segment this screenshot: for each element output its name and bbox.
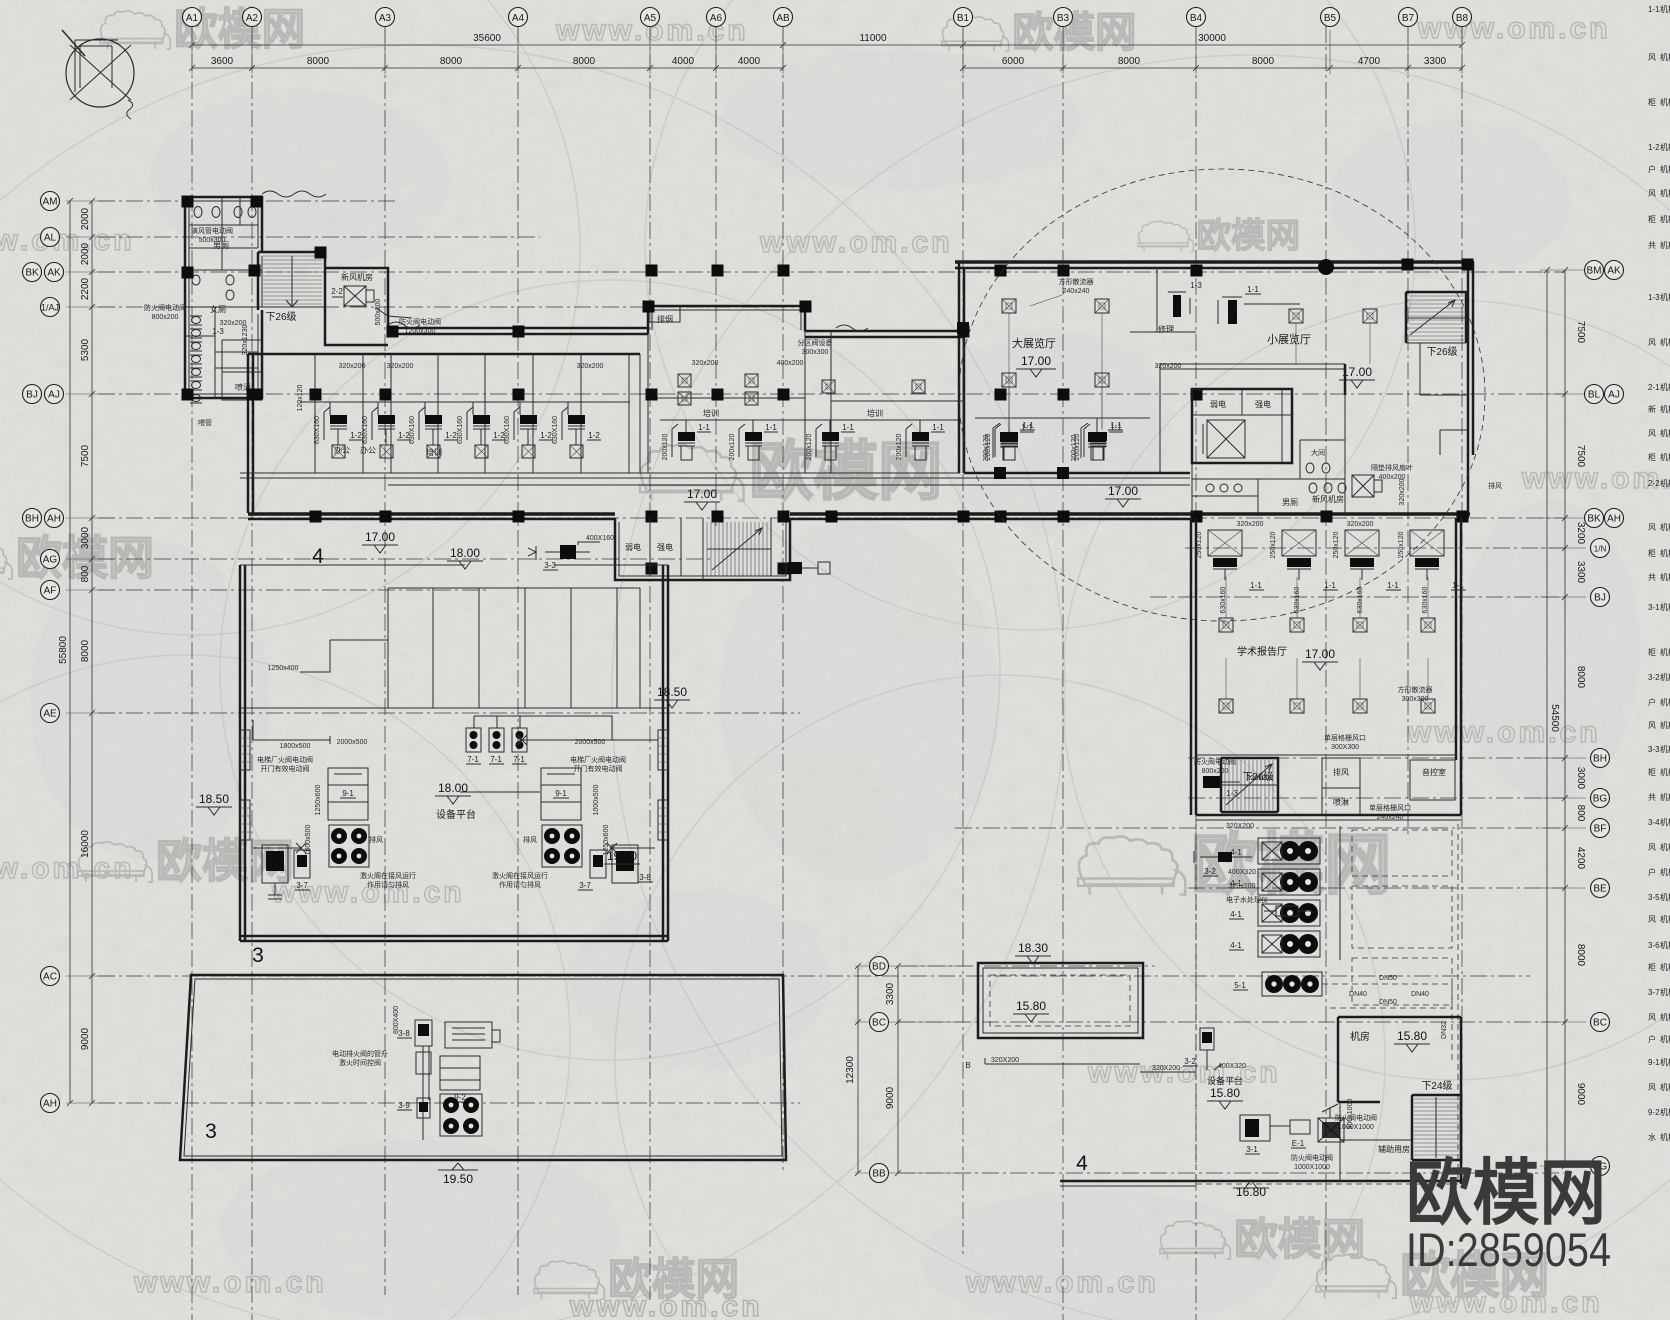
svg-text:柜: 柜: [1648, 647, 1656, 657]
svg-text:隔垫排风扇叶: 隔垫排风扇叶: [1371, 463, 1413, 472]
svg-text:3-2: 3-2: [1204, 867, 1216, 876]
svg-text:机柜: 机柜: [1660, 240, 1670, 250]
svg-text:机柜: 机柜: [1660, 97, 1670, 107]
ceiling diffusers training rooms: [678, 374, 691, 387]
exhibition fan coils 1-1: [1000, 432, 1018, 442]
svg-text:8000: 8000: [1575, 666, 1586, 689]
duct junction X marks: [296, 735, 617, 853]
svg-text:风: 风: [1648, 189, 1656, 198]
svg-text:54500: 54500: [1549, 704, 1560, 732]
svg-text:17.00: 17.00: [1305, 647, 1335, 661]
svg-text:2000x500: 2000x500: [575, 739, 606, 746]
svg-text:1-2: 1-2: [1648, 143, 1660, 152]
svg-text:3300: 3300: [1575, 561, 1586, 584]
stairs down26 south: [1221, 758, 1278, 812]
svg-text:3200: 3200: [1575, 522, 1586, 545]
svg-text:1250x400: 1250x400: [268, 665, 299, 672]
svg-text:300X300: 300X300: [1331, 744, 1359, 751]
svg-text:柜: 柜: [1648, 214, 1656, 224]
east wing inner walls near stair: [1406, 343, 1468, 455]
svg-text:12300: 12300: [845, 1056, 856, 1084]
svg-text:630X160: 630X160: [457, 416, 464, 444]
svg-text:机柜: 机柜: [1660, 940, 1670, 950]
svg-text:1/N: 1/N: [1594, 545, 1607, 554]
svg-text:15.80: 15.80: [1397, 1029, 1427, 1043]
svg-text:柜: 柜: [1648, 452, 1656, 462]
svg-text:630X160: 630X160: [314, 416, 321, 444]
duct run training band: [660, 420, 958, 432]
17.00 level near east stair: [1130, 267, 1196, 332]
svg-text:BD: BD: [872, 962, 886, 973]
extra hall columns: [994, 467, 1006, 479]
svg-text:机柜: 机柜: [1660, 164, 1670, 174]
platform equipment 3-2 southwest: [1200, 1028, 1214, 1050]
svg-text:1-1: 1-1: [765, 423, 777, 432]
svg-text:排风: 排风: [523, 835, 537, 844]
svg-text:3-2: 3-2: [1184, 1057, 1196, 1066]
svg-text:设备平台: 设备平台: [436, 808, 476, 821]
svg-text:320X200: 320X200: [1152, 1065, 1180, 1072]
svg-text:4-1: 4-1: [1230, 910, 1242, 919]
svg-text:激火时间控阀: 激火时间控阀: [339, 1058, 381, 1067]
svg-text:防火阀电动阀: 防火阀电动阀: [1291, 1153, 1333, 1162]
svg-text:机柜: 机柜: [1660, 792, 1670, 802]
svg-text:B5: B5: [1324, 13, 1337, 24]
svg-text:200x120: 200x120: [896, 433, 903, 460]
svg-text:风: 风: [1648, 53, 1656, 62]
svg-text:1-1: 1-1: [1110, 421, 1122, 430]
small rooms south of hall: [1322, 758, 1455, 815]
svg-text:250x120: 250x120: [1270, 531, 1277, 558]
svg-text:9000: 9000: [885, 1086, 896, 1109]
svg-text:下26级: 下26级: [265, 311, 296, 323]
exhibition hall left wall: [959, 261, 964, 473]
svg-text:15.80: 15.80: [1210, 1086, 1240, 1100]
svg-text:1-1: 1-1: [1452, 581, 1464, 590]
svg-text:8000: 8000: [1252, 56, 1275, 67]
svg-text:1250x600: 1250x600: [315, 785, 322, 816]
svg-text:机柜: 机柜: [1660, 1012, 1670, 1022]
equipment platform block outer walls: [240, 565, 245, 941]
svg-text:900x1000: 900x1000: [1347, 1099, 1354, 1130]
svg-text:机柜: 机柜: [1660, 744, 1670, 754]
svg-text:240x240: 240x240: [1063, 288, 1090, 295]
svg-text:AF: AF: [44, 586, 57, 597]
large dashed circle over exhibition halls: [959, 169, 1485, 621]
svg-text:单层格栅风口: 单层格栅风口: [1324, 733, 1366, 742]
svg-text:2000: 2000: [80, 207, 91, 230]
svg-text:3-1: 3-1: [1648, 603, 1660, 612]
fan bank west: [329, 825, 369, 867]
svg-text:下24级: 下24级: [1421, 1080, 1452, 1092]
svg-text:喷淋: 喷淋: [1333, 797, 1349, 807]
wing bottom exterior wall: [248, 512, 615, 516]
svg-text:15.80: 15.80: [1016, 999, 1046, 1013]
svg-text:3-9: 3-9: [398, 1101, 410, 1110]
lecture hall outer walls: [1191, 518, 1196, 815]
svg-text:17.00: 17.00: [365, 530, 395, 544]
svg-text:开门有效电动阀: 开门有效电动阀: [261, 764, 310, 773]
svg-text:机柜: 机柜: [1660, 1107, 1670, 1117]
right axis bubbles: [1585, 261, 1604, 280]
svg-text:作用请匀排风: 作用请匀排风: [499, 880, 541, 889]
svg-text:320x200: 320x200: [1237, 521, 1264, 528]
south yard boundary walls: [1196, 814, 1461, 817]
svg-text:1-2: 1-2: [540, 431, 552, 440]
svg-text:9-1: 9-1: [1648, 1058, 1660, 1067]
svg-text:培训: 培训: [867, 408, 883, 418]
svg-text:户: 户: [1648, 1034, 1656, 1044]
svg-text:E-1: E-1: [1292, 1139, 1305, 1148]
left dimension chain: [70, 201, 92, 1103]
wavy break marks: [262, 191, 326, 197]
svg-text:男厕: 男厕: [1282, 498, 1298, 507]
corridor wall between halls: [1160, 364, 1345, 473]
svg-text:机柜: 机柜: [1660, 1132, 1670, 1142]
svg-text:机柜: 机柜: [1660, 1034, 1670, 1044]
svg-text:8000: 8000: [1118, 56, 1141, 67]
svg-text:培训: 培训: [703, 408, 719, 418]
svg-text:1-1: 1-1: [1022, 421, 1034, 430]
svg-text:防火阀电动阀: 防火阀电动阀: [399, 317, 441, 326]
svg-text:机房: 机房: [1350, 1030, 1370, 1043]
svg-text:办公: 办公: [360, 445, 376, 455]
svg-text:250x120: 250x120: [1333, 531, 1340, 558]
svg-text:机柜: 机柜: [1660, 817, 1670, 827]
svg-text:17.00: 17.00: [687, 487, 717, 501]
svg-text:1-3: 1-3: [212, 327, 224, 336]
svg-text:17.00: 17.00: [1108, 484, 1138, 498]
svg-text:下26级: 下26级: [1242, 771, 1273, 783]
svg-text:3-8: 3-8: [398, 1029, 410, 1038]
svg-text:机柜: 机柜: [1660, 602, 1670, 612]
unit 3-x lecture hall left: [1203, 776, 1221, 788]
svg-text:17.00: 17.00: [1021, 354, 1051, 368]
svg-text:排风: 排风: [1488, 481, 1502, 490]
svg-text:630X160: 630X160: [409, 416, 416, 444]
svg-text:4200: 4200: [1575, 847, 1586, 870]
svg-text:BE: BE: [1593, 884, 1607, 895]
svg-text:BK: BK: [1587, 514, 1601, 525]
svg-text:B1: B1: [957, 13, 970, 24]
fan coil units 1-2 row in offices: [330, 415, 347, 424]
svg-text:机柜: 机柜: [1660, 914, 1670, 924]
svg-text:2-2: 2-2: [1648, 479, 1660, 488]
svg-text:风: 风: [1648, 843, 1656, 852]
svg-text:3-3: 3-3: [544, 561, 556, 570]
svg-text:DN50: DN50: [1379, 975, 1397, 982]
svg-text:机柜: 机柜: [1660, 1082, 1670, 1092]
toilet block partitions and fixtures: [185, 197, 262, 398]
svg-text:辅助用房: 辅助用房: [1378, 1144, 1410, 1154]
north arrow symbol: [62, 30, 134, 119]
svg-text:3-3: 3-3: [1648, 745, 1660, 754]
svg-text:机柜: 机柜: [1660, 987, 1670, 997]
terrace equipment cluster: [415, 1020, 432, 1046]
svg-text:机柜: 机柜: [1660, 962, 1670, 972]
svg-text:630X160: 630X160: [552, 416, 559, 444]
svg-text:17.00: 17.00: [1342, 365, 1372, 379]
svg-text:机柜: 机柜: [1660, 292, 1670, 302]
svg-text:机柜: 机柜: [1660, 672, 1670, 682]
svg-text:200x120: 200x120: [806, 433, 813, 460]
svg-text:8000: 8000: [1575, 944, 1586, 967]
svg-text:7-1: 7-1: [490, 755, 502, 764]
svg-text:强电: 强电: [657, 542, 673, 552]
mid columns wing grid: [646, 265, 658, 277]
svg-text:单层格栅风口: 单层格栅风口: [1369, 803, 1411, 812]
svg-text:3300: 3300: [885, 982, 896, 1005]
svg-text:800: 800: [1575, 805, 1586, 822]
svg-text:3-6: 3-6: [1648, 941, 1660, 950]
svg-text:电动排火阀的管升: 电动排火阀的管升: [332, 1049, 388, 1058]
elevator lobby block: [1192, 389, 1292, 463]
svg-text:19.00: 19.00: [607, 849, 637, 863]
svg-text:机柜: 机柜: [1660, 1057, 1670, 1067]
4-1 fan units stack: [1258, 838, 1320, 864]
svg-text:630X160: 630X160: [362, 416, 369, 444]
svg-text:1000x500: 1000x500: [305, 825, 312, 856]
svg-text:300x300: 300x300: [802, 349, 829, 356]
svg-text:8000: 8000: [573, 56, 596, 67]
elevator car: [1207, 420, 1245, 458]
svg-text:BG: BG: [1593, 794, 1608, 805]
svg-text:3300: 3300: [1424, 56, 1447, 67]
svg-text:A4: A4: [512, 13, 525, 24]
svg-text:作用请匀排风: 作用请匀排风: [367, 880, 409, 889]
filled junction circle B5: [1318, 259, 1334, 275]
plant room strips top: [240, 588, 668, 708]
spray room under toilet block: [222, 372, 262, 400]
exhibition ceiling diffusers: [1002, 299, 1016, 313]
svg-text:4-1: 4-1: [1230, 941, 1242, 950]
svg-text:弱电: 弱电: [1210, 399, 1226, 409]
svg-text:AH: AH: [1607, 514, 1621, 525]
pump unit 3-1 south: [1240, 1115, 1270, 1141]
svg-text:户: 户: [1648, 867, 1656, 877]
svg-text:400X160: 400X160: [586, 535, 614, 542]
svg-text:1000X1000: 1000X1000: [1294, 1164, 1330, 1171]
svg-text:设备平台: 设备平台: [1207, 1075, 1243, 1086]
svg-text:1800x500: 1800x500: [280, 743, 311, 750]
main wing top exterior wall: [388, 328, 648, 334]
svg-text:2000: 2000: [80, 242, 91, 265]
svg-text:DN50: DN50: [1379, 999, 1397, 1006]
svg-text:4000: 4000: [672, 56, 695, 67]
svg-text:250x120: 250x120: [1196, 531, 1203, 558]
svg-text:8000: 8000: [80, 639, 91, 662]
svg-text:9-1: 9-1: [555, 789, 567, 798]
mid stairs in service block: [707, 522, 767, 576]
stair block top-left: [258, 252, 325, 310]
right outer wall of east wing: [1468, 261, 1473, 518]
svg-text:3-4: 3-4: [1648, 818, 1660, 827]
svg-text:柜: 柜: [1648, 97, 1656, 107]
svg-text:9000: 9000: [80, 1027, 91, 1050]
svg-text:200x120: 200x120: [1071, 434, 1078, 461]
svg-text:BJ: BJ: [26, 390, 38, 401]
svg-text:16.80: 16.80: [1236, 1185, 1266, 1199]
svg-text:机柜: 机柜: [1660, 647, 1670, 657]
svg-text:柜: 柜: [1648, 767, 1656, 777]
svg-text:机柜: 机柜: [1660, 842, 1670, 852]
svg-text:2-1: 2-1: [1648, 383, 1660, 392]
svg-text:机柜: 机柜: [1660, 214, 1670, 224]
svg-text:机柜: 机柜: [1660, 52, 1670, 62]
svg-text:800x200: 800x200: [1202, 768, 1229, 775]
svg-text:演风管电动阀: 演风管电动阀: [191, 226, 233, 235]
svg-text:7500: 7500: [1575, 445, 1586, 468]
svg-text:B4: B4: [1190, 13, 1203, 24]
svg-text:630X160: 630X160: [504, 416, 511, 444]
svg-text:机柜: 机柜: [1660, 337, 1670, 347]
svg-text:女厕: 女厕: [210, 304, 226, 314]
7-1 small units row: [466, 728, 481, 752]
svg-text:电子水处理仪: 电子水处理仪: [1226, 895, 1268, 904]
svg-text:19.50: 19.50: [443, 1172, 473, 1186]
fan coil row top of lecture hall: [1208, 530, 1242, 556]
svg-text:机柜: 机柜: [1660, 404, 1670, 414]
svg-text:120x120: 120x120: [297, 384, 304, 411]
svg-text:3000: 3000: [1575, 767, 1586, 790]
svg-text:小展览厅: 小展览厅: [1267, 332, 1311, 346]
svg-text:AH: AH: [43, 1099, 57, 1110]
svg-text:弱电: 弱电: [625, 542, 641, 552]
svg-text:风: 风: [1648, 1083, 1656, 1092]
svg-text:1-2: 1-2: [588, 431, 600, 440]
svg-text:新: 新: [1648, 404, 1656, 414]
svg-text:9-2: 9-2: [1648, 1108, 1660, 1117]
corridor walls of wing: [240, 473, 960, 478]
stairs down24: [1412, 1095, 1461, 1160]
svg-text:风: 风: [1648, 429, 1656, 438]
svg-text:户: 户: [1648, 697, 1656, 707]
svg-text:欧模网: 欧模网: [1406, 1154, 1606, 1234]
grid axis lines: [191, 26, 193, 1320]
office band top wall: [248, 353, 640, 356]
svg-text:B7: B7: [1402, 13, 1415, 24]
svg-text:AE: AE: [43, 709, 57, 720]
small pumps west 3-7: [262, 845, 288, 883]
machine room south: [1338, 1017, 1461, 1184]
svg-text:AK: AK: [47, 268, 61, 279]
svg-text:机柜: 机柜: [1660, 478, 1670, 488]
svg-text:800: 800: [80, 565, 91, 582]
svg-text:4-1: 4-1: [1230, 848, 1242, 857]
svg-text:机柜: 机柜: [1660, 428, 1670, 438]
svg-text:B: B: [965, 1061, 970, 1070]
left axis bubbles: [41, 192, 60, 211]
svg-text:大间: 大间: [1311, 448, 1325, 457]
svg-text:B8: B8: [1456, 13, 1469, 24]
heat exchanger south: [1318, 1118, 1344, 1142]
lecture hall diffusers: [1219, 618, 1233, 632]
svg-text:AM: AM: [43, 197, 58, 208]
svg-text:320x200: 320x200: [387, 363, 414, 370]
svg-text:1-2: 1-2: [445, 431, 457, 440]
svg-text:方形散流器: 方形散流器: [1059, 277, 1094, 286]
svg-text:1/AJ: 1/AJ: [41, 303, 59, 313]
svg-text:AG: AG: [43, 555, 58, 566]
svg-text:1-1: 1-1: [698, 423, 710, 432]
svg-text:3-7: 3-7: [579, 881, 591, 890]
fan bank east: [542, 825, 582, 867]
svg-text:风: 风: [1648, 338, 1656, 347]
svg-text:6000: 6000: [1002, 56, 1025, 67]
svg-text:机柜: 机柜: [1660, 548, 1670, 558]
svg-text:BB: BB: [872, 1169, 886, 1180]
svg-text:水: 水: [1648, 1132, 1656, 1142]
svg-text:320X200: 320X200: [1226, 823, 1254, 830]
AHU unit 9-1 west: [328, 768, 368, 820]
svg-text:18.00: 18.00: [438, 781, 468, 795]
svg-text:机柜: 机柜: [1660, 4, 1670, 14]
svg-text:强电: 强电: [1255, 399, 1271, 409]
svg-text:3-5: 3-5: [1648, 893, 1660, 902]
svg-text:250x120: 250x120: [1398, 531, 1405, 558]
corridor inner line: [700, 477, 1190, 479]
svg-text:机柜: 机柜: [1660, 572, 1670, 582]
svg-text:200x120: 200x120: [729, 433, 736, 460]
svg-text:机柜: 机柜: [1660, 892, 1670, 902]
svg-text:BH: BH: [1593, 754, 1607, 765]
svg-text:3-7: 3-7: [296, 881, 308, 890]
svg-text:风: 风: [1648, 1013, 1656, 1022]
svg-text:7500: 7500: [80, 444, 91, 467]
stairs northeast down 26: [1406, 292, 1466, 343]
svg-text:16000: 16000: [80, 830, 91, 858]
svg-text:学术报告厅: 学术报告厅: [1237, 645, 1287, 658]
svg-text:1-3: 1-3: [1226, 789, 1238, 798]
exhibition hall top exterior wall: [955, 260, 1472, 264]
svg-text:BH: BH: [25, 514, 39, 525]
svg-text:1-1: 1-1: [1387, 581, 1399, 590]
svg-text:1000X1000: 1000X1000: [1338, 1124, 1374, 1131]
svg-text:AL: AL: [44, 233, 57, 244]
svg-text:2-2: 2-2: [331, 287, 343, 296]
duct runs equipment platform: [253, 716, 658, 744]
svg-text:机柜: 机柜: [1660, 382, 1670, 392]
svg-text:2000x500: 2000x500: [337, 739, 368, 746]
svg-text:1-3: 1-3: [1648, 293, 1660, 302]
svg-text:排风: 排风: [369, 835, 383, 844]
svg-text:5-1: 5-1: [1234, 981, 1246, 990]
svg-text:机柜: 机柜: [1660, 767, 1670, 777]
svg-text:320x200: 320x200: [339, 363, 366, 370]
svg-text:机柜: 机柜: [1660, 188, 1670, 198]
duct run office band: [300, 402, 630, 415]
svg-text:共: 共: [1648, 573, 1656, 582]
svg-text:3-7: 3-7: [1648, 988, 1660, 997]
svg-text:BM: BM: [1587, 266, 1602, 277]
svg-text:8000: 8000: [440, 56, 463, 67]
svg-text:7500: 7500: [1575, 321, 1586, 344]
training block upper partitions: [648, 398, 963, 401]
svg-text:方形散流器: 方形散流器: [1398, 685, 1433, 694]
svg-text:下26级: 下26级: [1426, 346, 1457, 358]
svg-text:AH: AH: [47, 514, 61, 525]
svg-text:大展览厅: 大展览厅: [1012, 336, 1056, 350]
svg-text:800X400: 800X400: [393, 1006, 400, 1034]
svg-text:2200: 2200: [80, 277, 91, 300]
svg-text:7-1: 7-1: [513, 755, 525, 764]
top axis bubbles: [183, 8, 202, 27]
svg-text:AK: AK: [1607, 266, 1621, 277]
svg-text:8000: 8000: [307, 56, 330, 67]
svg-text:户: 户: [1648, 164, 1656, 174]
small pumps east 3-7 3-8: [590, 850, 606, 878]
toilet block top-left outer walls: [185, 197, 262, 398]
